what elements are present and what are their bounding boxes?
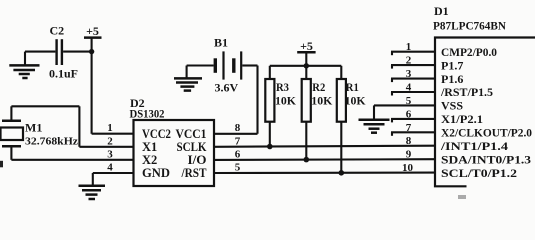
svg-text:SCLK: SCLK [177,140,207,154]
svg-text:4: 4 [107,162,113,174]
svg-text:I/O: I/O [188,153,207,167]
svg-text:8: 8 [235,122,241,134]
svg-text:/INT1/P1.4: /INT1/P1.4 [440,139,508,153]
svg-text:SDA/INT0/P1.3: SDA/INT0/P1.3 [441,152,531,166]
svg-text:VCC1: VCC1 [176,127,207,141]
svg-text:X1: X1 [142,140,157,154]
svg-text:8: 8 [406,135,412,147]
svg-text:1: 1 [406,41,412,53]
svg-text:4: 4 [406,82,412,94]
svg-text:C2: C2 [50,24,65,38]
svg-text:7: 7 [406,122,412,134]
svg-text:2: 2 [107,135,113,147]
svg-text:GND: GND [142,166,170,180]
svg-text:7: 7 [235,135,241,147]
svg-text:D1: D1 [434,4,449,18]
svg-text:P1.7: P1.7 [441,58,463,72]
svg-text:P87LPC764BN: P87LPC764BN [433,19,506,33]
svg-text:/RST/P1.5: /RST/P1.5 [440,85,493,99]
svg-text:SCL/T0/P1.2: SCL/T0/P1.2 [441,166,517,180]
svg-text:R3: R3 [276,80,289,94]
svg-text:10K: 10K [345,93,367,107]
svg-text:P1.6: P1.6 [441,72,463,86]
svg-text:10K: 10K [275,93,297,107]
svg-text:2: 2 [406,55,412,67]
svg-text:X2/CLKOUT/P2.0: X2/CLKOUT/P2.0 [441,126,532,140]
svg-text:X2: X2 [142,153,157,167]
svg-text:M1: M1 [25,121,42,135]
svg-text:9: 9 [406,149,412,161]
svg-text:10: 10 [402,162,414,174]
svg-text:5: 5 [406,95,412,107]
svg-text:0.1uF: 0.1uF [49,67,78,81]
svg-text:+5: +5 [86,24,99,38]
svg-text:/RST: /RST [181,166,207,180]
svg-text:3: 3 [406,68,412,80]
svg-text:3: 3 [107,148,113,160]
svg-text:32.768kHz: 32.768kHz [25,136,78,148]
svg-text:3.6V: 3.6V [215,81,239,95]
svg-text:6: 6 [406,108,412,120]
svg-text:R1: R1 [346,80,359,94]
svg-text:DS1302: DS1302 [130,107,165,121]
svg-text:1: 1 [107,122,113,134]
svg-text:10K: 10K [311,93,333,107]
svg-text:CMP2/P0.0: CMP2/P0.0 [441,45,497,59]
svg-text:R2: R2 [312,80,325,94]
svg-text:6: 6 [235,148,241,160]
svg-text:+5: +5 [300,39,313,53]
svg-text:X1/P2.1: X1/P2.1 [441,112,483,126]
svg-text:VSS: VSS [441,99,463,113]
svg-text:VCC2: VCC2 [142,127,171,141]
svg-text:5: 5 [235,162,241,174]
svg-text:B1: B1 [214,36,228,50]
